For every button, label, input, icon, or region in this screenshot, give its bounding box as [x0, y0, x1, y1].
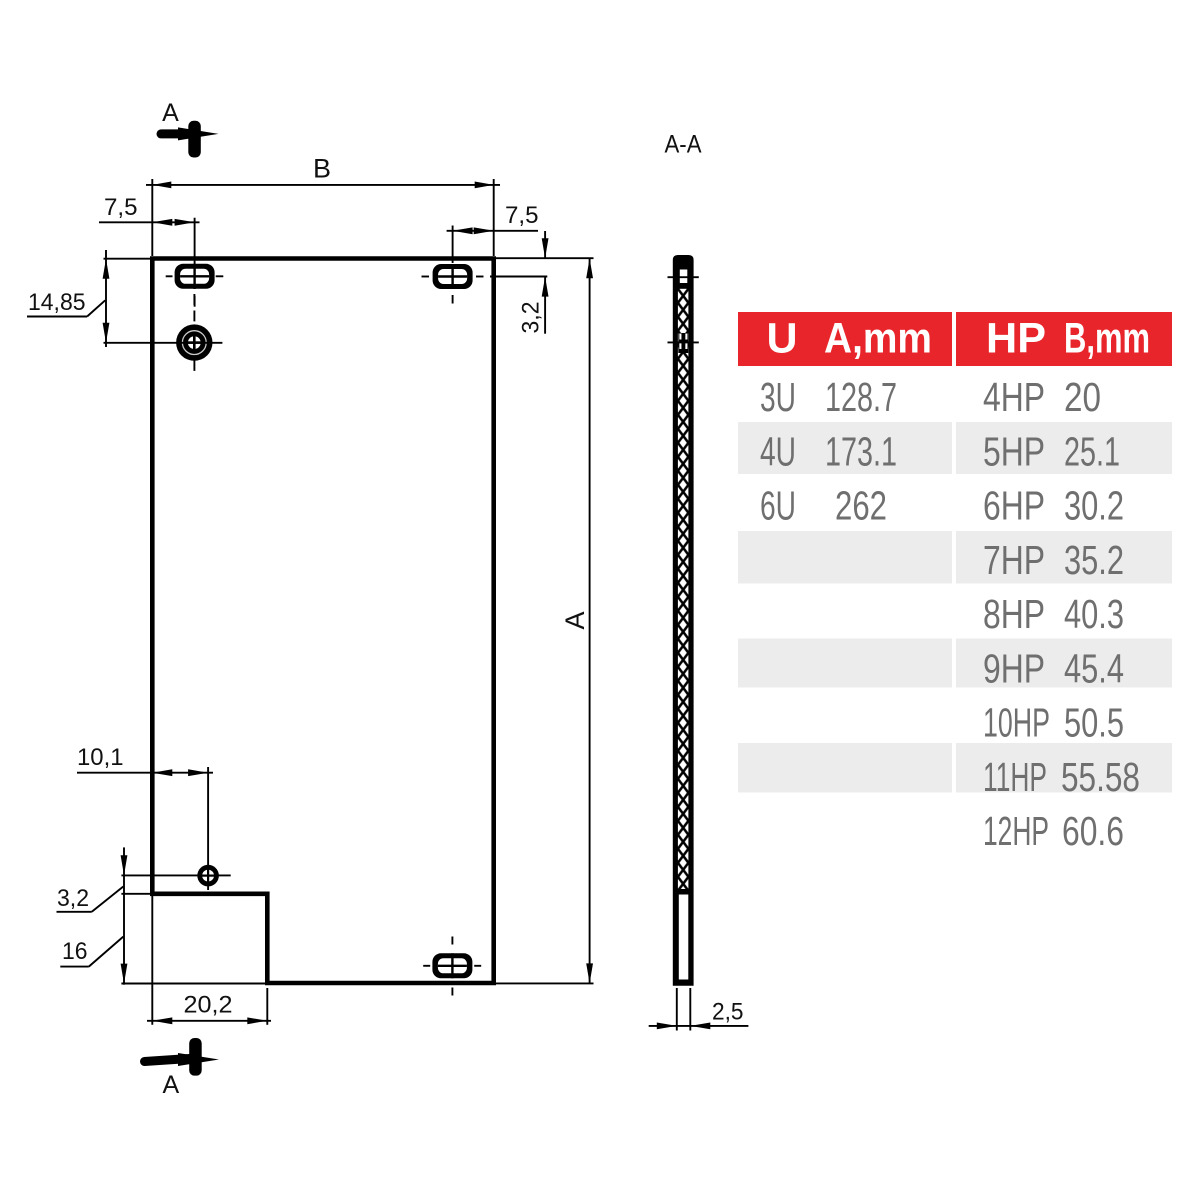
svg-text:B: B — [313, 154, 331, 184]
svg-text:55.58: 55.58 — [1061, 754, 1140, 800]
svg-text:50.5: 50.5 — [1064, 700, 1124, 746]
svg-text:40.3: 40.3 — [1064, 591, 1124, 637]
svg-text:45.4: 45.4 — [1064, 645, 1124, 691]
table header red — [738, 312, 952, 366]
svg-text:60.6: 60.6 — [1062, 808, 1124, 854]
panel outline — [152, 259, 493, 984]
svg-text:11HP: 11HP — [983, 754, 1047, 800]
svg-text:14,85: 14,85 — [28, 289, 86, 316]
table gray bands — [738, 422, 1172, 793]
svg-text:A: A — [162, 99, 179, 127]
svg-text:7HP: 7HP — [983, 537, 1045, 583]
svg-text:4HP: 4HP — [983, 374, 1045, 420]
svg-text:A: A — [560, 611, 590, 629]
slot top-right — [433, 264, 473, 289]
svg-text:3,2: 3,2 — [518, 302, 545, 334]
slot centerline top-left — [166, 218, 224, 307]
svg-text:20: 20 — [1064, 374, 1101, 420]
svg-text:4U: 4U — [760, 428, 796, 474]
svg-text:5HP: 5HP — [983, 428, 1045, 474]
dimension 7,5 right — [447, 202, 539, 263]
svg-text:U: U — [766, 315, 797, 363]
bottom edge extension line — [121, 983, 267, 985]
svg-text:262: 262 — [835, 483, 887, 529]
svg-text:3,2: 3,2 — [57, 885, 89, 912]
dimension 16 — [60, 875, 127, 985]
dimension 3,2 top-right — [490, 231, 594, 334]
dimension B — [146, 154, 500, 257]
svg-text:B,mm: B,mm — [1064, 315, 1150, 363]
section cut symbol top — [161, 99, 219, 158]
svg-text:16: 16 — [62, 938, 88, 965]
dimension 2,5 — [649, 988, 749, 1031]
hole top-left circle — [176, 294, 212, 372]
svg-text:A-A: A-A — [665, 131, 702, 159]
dimension 14,85 — [27, 250, 222, 347]
dimension 10,1 — [77, 744, 213, 890]
svg-text:9HP: 9HP — [983, 645, 1045, 691]
svg-text:173.1: 173.1 — [825, 428, 897, 474]
slot top-left — [175, 264, 215, 289]
svg-text:2,5: 2,5 — [712, 999, 744, 1026]
section cut symbol bottom — [145, 1038, 220, 1099]
slot centerline bottom-right — [423, 937, 481, 996]
svg-text:7,5: 7,5 — [505, 202, 539, 229]
svg-text:A,mm: A,mm — [824, 315, 932, 363]
svg-text:30.2: 30.2 — [1064, 483, 1124, 529]
svg-text:25.1: 25.1 — [1064, 428, 1120, 474]
svg-text:10HP: 10HP — [983, 700, 1050, 746]
svg-text:3U: 3U — [760, 374, 796, 420]
svg-text:7,5: 7,5 — [104, 194, 138, 221]
svg-text:12HP: 12HP — [983, 808, 1049, 854]
slot centerline top-right — [422, 277, 484, 304]
section profile — [668, 255, 699, 986]
svg-text:128.7: 128.7 — [825, 374, 897, 420]
svg-text:6U: 6U — [760, 483, 796, 529]
dimension 20,2 — [147, 894, 271, 1025]
table body text — [760, 374, 1140, 854]
svg-text:6HP: 6HP — [983, 483, 1045, 529]
dimension A right — [496, 258, 594, 983]
svg-text:35.2: 35.2 — [1064, 537, 1124, 583]
svg-text:8HP: 8HP — [983, 591, 1045, 637]
dimension 3,2 bottom-left — [57, 847, 154, 912]
dimension 7,5 left — [99, 194, 200, 226]
slot bottom-right — [432, 953, 472, 978]
svg-text:20,2: 20,2 — [184, 991, 233, 1018]
svg-text:A: A — [163, 1071, 180, 1099]
hole bottom small circle — [121, 865, 230, 887]
svg-text:10,1: 10,1 — [77, 744, 124, 771]
svg-text:HP: HP — [986, 315, 1046, 363]
